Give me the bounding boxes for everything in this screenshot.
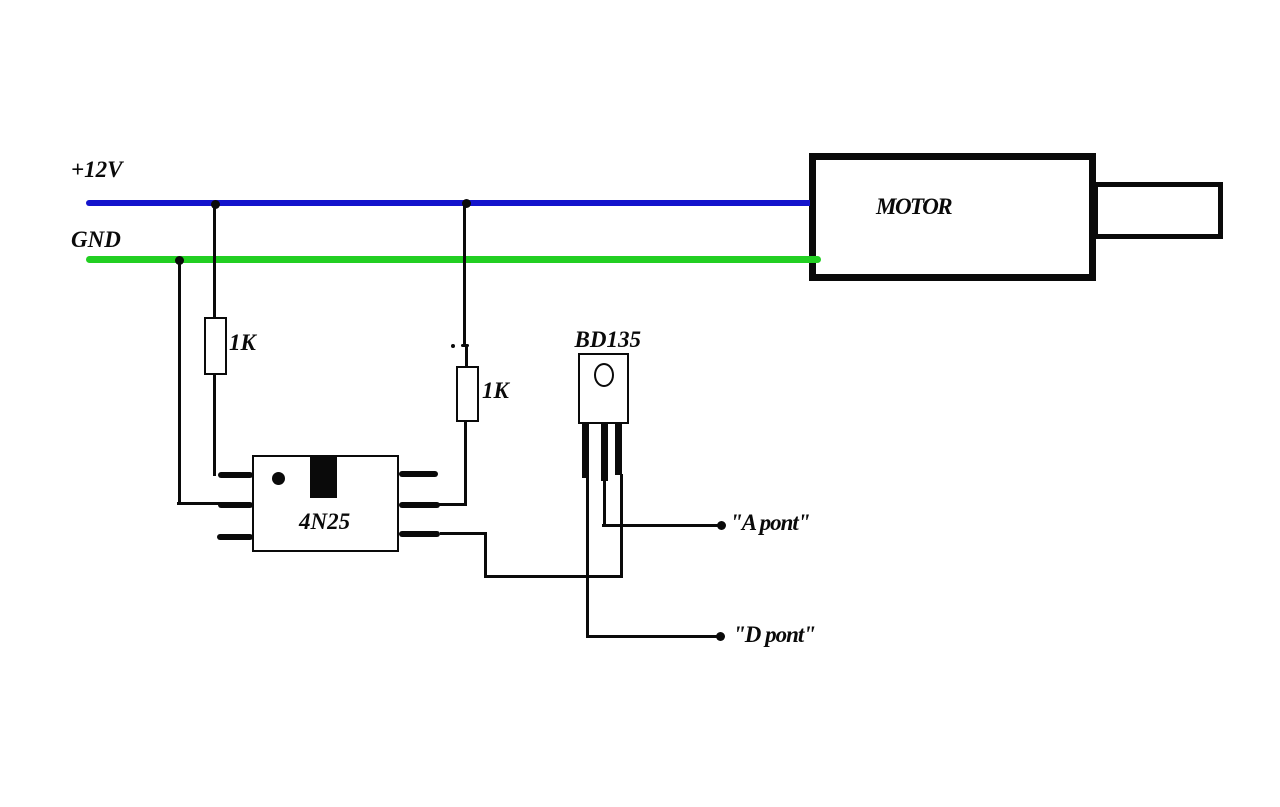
resistor R1 1K body	[204, 317, 227, 375]
wire R2 to U1 pin5 horizontal	[439, 503, 467, 506]
transistor Q1 BD135 body	[578, 353, 629, 424]
wire joint mark	[461, 344, 469, 348]
motor M1 body	[809, 153, 1096, 281]
wire to D pont	[586, 635, 717, 638]
label 4N25	[299, 510, 350, 533]
wire to A pont	[602, 524, 718, 527]
pin 2 stub (U1 mid-left)	[218, 502, 253, 508]
transistor Q1 middle leg	[601, 424, 608, 481]
wire Q1 middle leg down	[603, 481, 606, 526]
pin 3 stub (U1 bottom-left, unconnected)	[217, 534, 253, 540]
pin 5 stub (U1 mid-right)	[399, 502, 440, 508]
net label +12V	[71, 158, 122, 181]
resistor R2 1K body	[456, 366, 479, 422]
transistor Q1 left leg	[582, 424, 589, 478]
net label GND	[71, 228, 121, 251]
node junction on +12V at R2	[462, 199, 471, 208]
wire R2 bottom down	[464, 422, 467, 506]
wire U1 pin4 horizontal	[440, 532, 487, 535]
wire +12V rail (blue)	[86, 200, 810, 206]
wire GND junction down	[178, 260, 181, 505]
value label 1K (R1)	[229, 331, 256, 354]
wire to R2 top (lower)	[465, 345, 468, 367]
node A pont dot	[717, 521, 726, 530]
label BD135	[575, 328, 641, 351]
node junction on GND	[175, 256, 184, 265]
transistor Q1 right leg	[615, 424, 622, 475]
opto-coupler U1 4N25 body	[252, 455, 400, 552]
stray dot	[451, 344, 455, 348]
opto-coupler U1 notch	[310, 456, 337, 498]
net label "D pont"	[733, 623, 815, 646]
node D pont dot	[716, 632, 725, 641]
wire Q1 left leg down	[586, 478, 589, 638]
wire GND vertical to U1 pin2	[177, 502, 221, 505]
node junction on +12V at R1	[211, 200, 220, 209]
wire Q1 right leg down	[620, 474, 623, 577]
pin 6 stub (U1 top-right, unconnected)	[399, 471, 438, 477]
transistor Q1 mounting hole	[594, 363, 614, 387]
wire R1 bottom to U1 pin1	[213, 375, 216, 476]
wire to Q1 collector horizontal	[484, 575, 623, 578]
pin 1 stub (U1 top-left)	[218, 472, 253, 478]
wire +12V to R1 top	[213, 204, 216, 317]
wire +12V to R2 (upper)	[463, 203, 466, 345]
wire GND rail (green)	[86, 256, 821, 263]
net label "A pont"	[730, 511, 810, 534]
pin 4 stub (U1 bottom-right)	[399, 531, 441, 537]
motor M1 shaft	[1093, 182, 1223, 239]
label MOTOR	[876, 195, 951, 218]
wire U1 pin4 vertical drop	[484, 532, 487, 578]
opto-coupler U1 pin1 mark	[272, 472, 285, 485]
value label 1K (R2)	[482, 379, 509, 402]
